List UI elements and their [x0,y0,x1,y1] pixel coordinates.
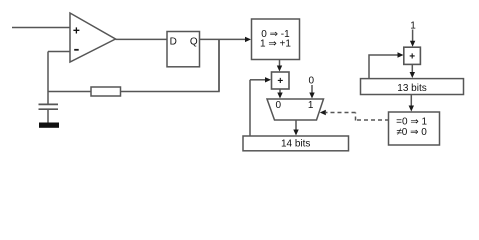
svg-text:Q: Q [190,37,198,48]
svg-text:1: 1 [410,21,416,32]
svg-text:1 ⇒ +1: 1 ⇒ +1 [260,39,291,50]
svg-text:+: + [409,52,415,63]
svg-text:+: + [277,76,283,87]
svg-text:=0 ⇒ 1: =0 ⇒ 1 [396,116,427,127]
svg-text:≠0 ⇒ 0: ≠0 ⇒ 0 [396,127,427,138]
svg-text:0: 0 [309,76,315,87]
svg-text:+: + [73,24,80,38]
svg-text:13 bits: 13 bits [397,83,426,94]
svg-text:0: 0 [276,100,282,111]
svg-text:1: 1 [308,100,314,111]
svg-text:D: D [170,37,177,48]
svg-text:14 bits: 14 bits [281,139,310,150]
